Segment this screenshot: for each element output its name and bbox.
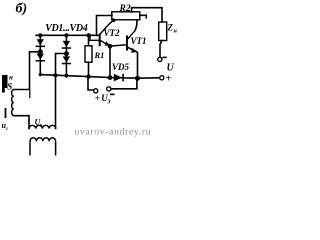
svg-text:R1: R1 (94, 50, 105, 60)
svg-text:VD5: VD5 (112, 62, 130, 72)
svg-text:VT1: VT1 (131, 36, 147, 46)
svg-text:VD1...VD4: VD1...VD4 (45, 23, 87, 34)
svg-text:3: 3 (107, 99, 111, 105)
svg-text:VT2: VT2 (104, 28, 121, 38)
svg-text:U: U (167, 63, 175, 74)
svg-text:б): б) (16, 1, 28, 16)
svg-text:uvarov-andrey.ru: uvarov-andrey.ru (75, 128, 151, 138)
svg-text:+: + (95, 93, 100, 103)
svg-text:Z: Z (167, 23, 174, 33)
svg-text:н: н (174, 29, 178, 35)
svg-text:S: S (7, 82, 12, 92)
svg-text:+: + (166, 74, 172, 85)
svg-text:R2: R2 (119, 4, 131, 14)
svg-text:н: н (9, 74, 13, 82)
svg-text:г: г (6, 127, 8, 132)
svg-text:к: к (40, 123, 43, 129)
